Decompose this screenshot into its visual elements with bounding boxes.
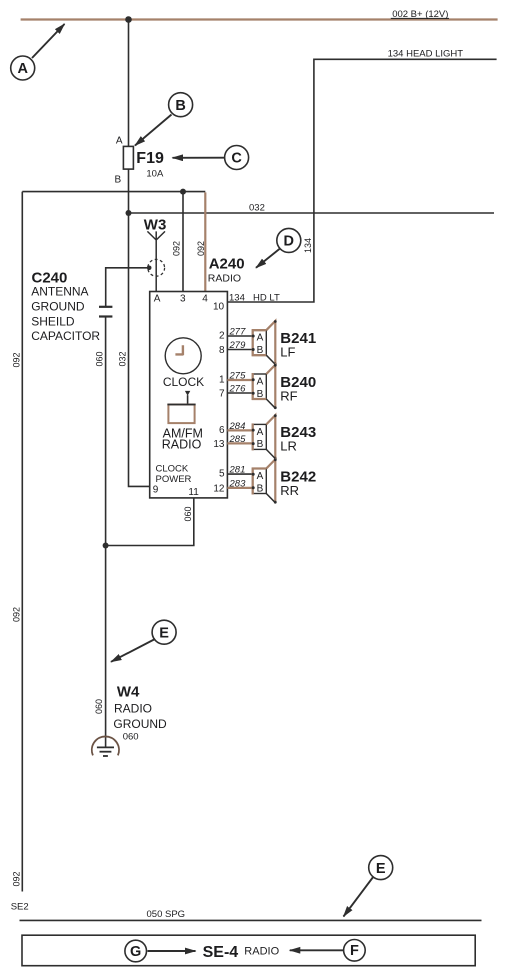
callout E bottom: [344, 856, 393, 917]
callout F: [290, 940, 365, 962]
speaker B241 cone: [266, 320, 276, 365]
wire B+ rail down to fuse: [128, 20, 130, 147]
svg-text:RADIO: RADIO: [162, 438, 202, 452]
svg-text:032: 032: [249, 203, 265, 214]
svg-text:F: F: [350, 943, 359, 959]
svg-text:7: 7: [219, 389, 225, 400]
svg-text:A: A: [17, 61, 28, 77]
svg-text:6: 6: [219, 425, 225, 436]
svg-text:134: 134: [303, 238, 313, 253]
AM/FM radio antenna mark: [185, 391, 190, 396]
capacitor C240 bottom plate: [99, 315, 112, 317]
svg-text:092: 092: [12, 352, 22, 367]
svg-text:RF: RF: [280, 388, 297, 403]
svg-text:SHEILD: SHEILD: [31, 314, 75, 328]
svg-text:B: B: [257, 439, 264, 450]
speaker B242 cone: [266, 458, 276, 503]
wire 276 radio pin 7 to speaker: [227, 392, 252, 394]
svg-text:CLOCK: CLOCK: [156, 464, 189, 475]
svg-text:E: E: [159, 625, 169, 641]
svg-text:CLOCK: CLOCK: [163, 375, 204, 389]
wire 092 to radio pin 3: [182, 192, 184, 292]
svg-text:11: 11: [188, 487, 199, 498]
ground symbol W4: [92, 736, 119, 756]
svg-text:092: 092: [12, 871, 22, 886]
svg-text:050 SPG: 050 SPG: [147, 909, 186, 920]
svg-text:ANTENNA: ANTENNA: [31, 284, 88, 298]
wire shield to capacitor C240: [106, 268, 150, 307]
svg-text:W3: W3: [144, 217, 167, 234]
svg-text:060: 060: [183, 506, 193, 521]
label underline for 002 B+: [391, 17, 449, 19]
speaker B240 cone: [266, 364, 276, 409]
speaker B241 terminal A node: [252, 334, 255, 337]
svg-text:5: 5: [219, 469, 225, 480]
wire 050 SPG: [20, 919, 482, 921]
svg-text:276: 276: [229, 384, 247, 395]
svg-text:2: 2: [219, 331, 225, 342]
speaker B240 terminal box: [252, 373, 267, 400]
svg-text:RADIO: RADIO: [244, 945, 279, 957]
callout C: [173, 146, 249, 170]
svg-text:060: 060: [95, 351, 105, 366]
node on shield: [147, 266, 152, 271]
svg-text:060: 060: [123, 732, 139, 743]
svg-text:134: 134: [229, 293, 245, 304]
AM/FM radio antenna lead: [187, 395, 189, 404]
svg-text:A: A: [257, 427, 264, 438]
svg-text:D: D: [284, 234, 294, 250]
svg-text:281: 281: [229, 465, 246, 476]
svg-text:060: 060: [94, 699, 104, 714]
svg-text:B: B: [257, 483, 264, 494]
svg-text:E: E: [376, 861, 386, 877]
svg-text:275: 275: [229, 371, 247, 382]
svg-text:10A: 10A: [146, 168, 164, 179]
wire 277 radio pin 2 to speaker: [227, 335, 252, 337]
clock hands (brown): [175, 345, 183, 355]
svg-text:G: G: [130, 944, 141, 960]
antenna W3 symbol: [147, 231, 165, 291]
svg-text:279: 279: [229, 340, 247, 351]
svg-text:032: 032: [118, 351, 128, 366]
svg-text:B: B: [115, 174, 122, 185]
svg-text:9: 9: [153, 485, 159, 496]
svg-text:GROUND: GROUND: [113, 717, 167, 731]
speaker B243 terminal box: [253, 423, 267, 450]
speaker B241 terminal box: [252, 329, 267, 356]
svg-text:A: A: [257, 333, 264, 344]
wire 060 capacitor to ground W4: [105, 317, 107, 748]
svg-text:284: 284: [229, 421, 246, 432]
capacitor C240 top plate: [99, 306, 112, 308]
svg-text:12: 12: [213, 483, 225, 494]
svg-text:RADIO: RADIO: [114, 702, 152, 716]
svg-text:285: 285: [229, 434, 247, 445]
svg-text:A: A: [257, 376, 264, 387]
svg-text:134 HEAD LIGHT: 134 HEAD LIGHT: [388, 49, 464, 60]
speaker B240 terminal A node: [252, 378, 255, 381]
svg-text:002 B+ (12V): 002 B+ (12V): [392, 9, 448, 20]
svg-text:B: B: [175, 98, 185, 114]
svg-text:LR: LR: [280, 439, 297, 454]
callout A: [11, 24, 65, 80]
callout E middle: [111, 620, 176, 662]
svg-text:8: 8: [219, 345, 225, 356]
svg-text:C: C: [231, 151, 242, 167]
svg-text:092: 092: [172, 241, 182, 256]
radio unit A240 box: [150, 292, 228, 498]
svg-text:SE-4: SE-4: [203, 944, 239, 961]
svg-text:CAPACITOR: CAPACITOR: [31, 329, 100, 343]
svg-text:POWER: POWER: [156, 474, 192, 485]
antenna shield dashed circle: [148, 259, 165, 276]
svg-text:277: 277: [229, 327, 247, 338]
junction node on B+ rail: [125, 16, 132, 23]
wire 060 radio pin 11 to ground wire: [106, 498, 194, 546]
svg-text:092: 092: [12, 607, 22, 622]
svg-text:3: 3: [180, 294, 186, 305]
svg-text:10: 10: [213, 302, 225, 313]
wire 092 top horizontal bus: [22, 191, 205, 193]
svg-text:SE2: SE2: [11, 902, 29, 913]
speaker B240 terminal B node: [252, 392, 255, 395]
svg-text:RR: RR: [280, 483, 299, 498]
wire 032 from fuse B down and into radio pin 9: [129, 169, 150, 486]
wire 002 B+ power rail (brown): [21, 18, 498, 20]
svg-text:B: B: [257, 345, 264, 356]
junction node pin 3 wire: [180, 189, 186, 195]
callout D: [256, 228, 301, 267]
svg-text:283: 283: [229, 478, 247, 489]
wire 283 radio pin 12 to speaker: [227, 487, 252, 489]
svg-text:13: 13: [213, 439, 225, 450]
fuse F19 body: [123, 146, 133, 169]
clock symbol circle: [165, 338, 201, 374]
svg-text:4: 4: [202, 294, 208, 305]
speaker B243 cone: [266, 414, 276, 459]
svg-text:RADIO: RADIO: [208, 273, 241, 285]
svg-text:092: 092: [196, 241, 206, 256]
wire 134 head light from radio pin 10: [227, 59, 496, 302]
speaker B242 terminal A node: [252, 473, 255, 476]
speaker B242 terminal box: [252, 468, 267, 495]
svg-text:A: A: [116, 136, 123, 147]
svg-text:LF: LF: [280, 345, 295, 360]
wire 032 horizontal to right edge: [129, 212, 495, 214]
reference box SE-4: [22, 935, 475, 966]
AM/FM radio box (brown): [168, 405, 194, 424]
svg-text:A: A: [257, 471, 264, 482]
svg-text:HD LT: HD LT: [253, 293, 280, 304]
wire 092 to radio pin 4 (brown): [204, 192, 206, 291]
svg-text:GROUND: GROUND: [31, 299, 85, 313]
wire 284 radio pin 6 to speaker: [227, 429, 252, 431]
wire 279 radio pin 8 to speaker: [227, 349, 252, 351]
svg-text:F19: F19: [136, 150, 164, 167]
wire 281 radio pin 5 to speaker: [227, 473, 252, 475]
callout B: [135, 93, 193, 146]
speaker B243 terminal A node: [252, 429, 255, 432]
speaker B243 terminal B node: [252, 442, 255, 445]
svg-text:A: A: [154, 294, 161, 305]
svg-text:1: 1: [219, 375, 225, 386]
svg-text:W4: W4: [117, 684, 140, 701]
junction node 032 at fuse wire: [126, 210, 132, 216]
svg-text:A240: A240: [209, 256, 245, 273]
wire 285 radio pin 13 to speaker: [227, 442, 252, 444]
AM/FM radio box top edge (black): [167, 404, 195, 406]
svg-text:B: B: [257, 389, 264, 400]
junction node 060: [103, 543, 109, 549]
speaker B241 terminal B node: [252, 348, 255, 351]
wire 092 left vertical to SE2: [21, 192, 23, 892]
callout G: [125, 940, 196, 962]
speaker B242 terminal B node: [252, 486, 255, 489]
wire 275 radio pin 1 to speaker: [227, 379, 252, 381]
